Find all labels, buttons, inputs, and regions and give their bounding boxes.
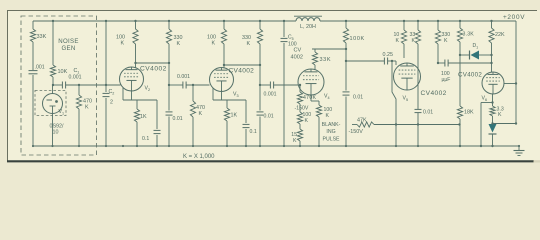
wire ground bottom bus [33,145,519,147]
wire 100K plate column V2 [136,21,170,68]
wire +200V right drop [515,21,517,124]
node 330K top (V6) [437,20,439,22]
svg-text:47K: 47K [357,118,367,124]
node D1 left [459,54,461,56]
label 47K [357,118,367,124]
node bottom bus x=106 [105,145,107,147]
capacitor .001 (noise gen) [29,71,38,74]
svg-text:33K: 33K [37,34,47,40]
capacitor 0.001 coupling V3-V4 [270,82,273,89]
label 0.25 [383,52,394,58]
node 47K junction C [458,123,460,125]
label 3.3K (top) [463,32,475,38]
label 100K (V2) [116,35,125,47]
node grid V6 [490,62,492,64]
node grid V5 [391,60,393,62]
node bottom bus x=33 [32,145,34,147]
node coupling junction V2 [168,84,170,86]
node 470K tap V4 [299,84,301,86]
node D1 right [490,54,492,56]
node 330K top [168,20,170,22]
wire V3 cathode tee [213,88,246,100]
label D1 [473,43,479,49]
resistor 470K grid leak V2 [76,85,81,146]
svg-text:1K: 1K [231,113,238,119]
label 0.01 (V4) [353,95,363,101]
svg-text:3.3K: 3.3K [463,32,475,38]
label 18K [464,110,474,116]
label L1 20H [300,24,316,30]
label NOISE GEN [58,38,78,52]
capacitor 0.25 coupling [384,58,387,65]
label .001 [35,65,45,71]
capacitor 0.01 decoupling V3 [257,112,264,115]
node bottom bus x=284 [283,145,285,147]
triode V2 CV4002 [120,67,144,91]
inductor L1 20H [294,16,322,21]
resistor 470K grid leak V3 [190,85,195,146]
svg-text:K: K [396,38,400,44]
svg-text:K: K [444,38,448,44]
wire 10K column [52,21,54,85]
wire output row [493,123,517,125]
svg-text:-150V: -150V [349,129,364,135]
svg-text:0.25: 0.25 [383,52,394,58]
svg-text:0.01: 0.01 [173,116,183,122]
node 330K junction [437,62,439,64]
wire cathode tee V6 [481,103,493,147]
triode V5 CV4002 [394,63,421,90]
svg-text:BLANK-: BLANK- [322,122,341,128]
node plate V3 [223,64,225,66]
capacitor 0.01 decoupling V2 [166,112,173,115]
wire V4 cathode [311,95,319,101]
wire V1 top lead [52,85,54,94]
svg-text:K = X 1,000: K = X 1,000 [183,154,215,160]
label CV4002 (V5) [421,90,447,97]
label CV4002 (V3) [229,68,255,75]
resistor 18K [457,106,462,119]
label V4 [324,94,330,100]
node bottom bus x=193 [192,145,194,147]
wire plate stub V3 [223,65,225,68]
node bottom bus x=300 [299,145,301,147]
node cathode V6 [491,101,493,103]
capacitor 0.1 bypass V3 [243,100,250,146]
svg-text:2: 2 [110,100,113,106]
node 330K tee V2 [168,62,170,64]
node grid crossing [105,84,107,86]
node 100K top V3 [223,20,225,22]
resistor 3.3K (cathode) [490,106,495,116]
label C2 [109,89,115,106]
resistor 100K plate V4 [343,28,348,43]
node bus cathode tee [480,145,482,147]
resistor 330K (V3) [257,29,262,44]
node 10K top bus [52,20,54,22]
wire plate feed V4 [312,48,346,50]
label 470K (V4) [303,95,317,101]
triode V3 CV4002 [210,68,234,92]
wire grid line stage 1 [53,84,121,86]
label 0.01 (V5) [423,110,433,116]
label 0.01 (V3) [264,114,274,120]
node bottom bus x=123 [122,145,124,147]
label 33K (V5) [410,32,416,44]
svg-text:33K: 33K [320,57,332,63]
node 100K top V4 [345,20,347,22]
capacitor C5 100 [281,38,288,41]
node 330K tee V3 [259,64,261,66]
label CV4002 (V4) [291,48,303,61]
wire 100uuF coupling row [438,63,492,72]
svg-text:K: K [293,138,297,144]
resistor chain 470K/100K/15K to -150V [297,86,302,146]
node 33K top [417,20,419,22]
capacitor 100 uuF coupling [445,60,448,67]
label CV4002 (V6) [458,72,482,79]
resistor 33K [30,29,35,42]
node output [515,122,517,124]
label 1K (V3) [231,113,238,119]
wire 100K plate column V3 [224,21,260,65]
svg-text:CV: CV [294,48,302,54]
label 100K (V3) [207,35,216,47]
node bottom bus x=52.5 [51,145,53,147]
node bottom bus x=137 [136,145,138,147]
node bottom bus x=79 [78,145,80,147]
wire grid line stage 4 [346,61,396,65]
svg-text:CV4002: CV4002 [140,66,167,73]
resistor 10K [401,21,406,58]
svg-text:K: K [212,41,216,47]
capacitor C2 [103,93,110,96]
svg-text:0.01: 0.01 [353,95,363,101]
label 3.3K (cathode) [497,107,504,119]
resistor 330K (V6 grid) [435,21,440,63]
resistor 1K cathode V2 [134,100,139,146]
svg-text:0.001: 0.001 [264,92,277,98]
label BLANKING PULSE [322,122,341,143]
node 10K top [403,20,405,22]
wire V2 cathode tee [123,88,157,100]
node D2 junction [491,122,493,124]
label 0.001 (V2-V3) [177,74,190,80]
wire grid line stage 3 [260,84,299,86]
svg-text:0.01: 0.01 [264,114,274,120]
resistor 10K [50,65,55,77]
svg-text:470K: 470K [303,95,317,101]
node C2 top [105,20,107,22]
node bottom bus x=418 [417,145,419,147]
svg-text:1K: 1K [140,114,147,120]
label 330K (V3) [242,35,251,47]
capacitor C1 0.001 [62,82,65,89]
wire V6 anode [504,83,516,85]
svg-text:22K: 22K [495,32,505,38]
diode D1 [470,51,480,60]
label 33K (V4) [320,57,332,63]
label 470K [83,99,92,111]
svg-text:4002: 4002 [291,55,303,61]
ground [514,146,525,156]
svg-text:10K: 10K [58,69,68,75]
label C1 [74,68,80,74]
wire grid line stage 2 [169,84,210,86]
svg-text:K: K [85,105,89,111]
svg-text:.001: .001 [35,65,45,71]
node bottom bus x=246 [245,145,247,147]
diode D2 [489,124,497,134]
wire 100K plate column V4 [345,21,347,146]
label 100K (divider) [303,112,312,124]
node plate feed [345,48,347,50]
wire V1 cathode to bus [52,114,54,147]
svg-text:L, 20H: L, 20H [300,24,316,30]
node bottom bus x=396 [395,145,397,147]
svg-text:0.1: 0.1 [250,129,257,135]
svg-text:0.01: 0.01 [423,110,433,116]
label -150V (47K) [349,129,364,135]
wire 330K column V2 [168,21,170,146]
label C5 [288,35,297,48]
label 0.1 (V3) [250,129,257,135]
svg-text:K: K [177,41,181,47]
svg-text:0.001: 0.001 [177,74,190,80]
label 470K (V3) [196,105,205,117]
svg-text:CV4002: CV4002 [458,72,482,79]
label +200V [503,14,525,21]
node bus D2 [491,145,493,147]
label CV4002 (V2) [140,66,167,73]
label 100K (V4) [350,36,365,42]
node bottom bus x=157 [156,145,158,147]
wire +200V top supply bus [33,20,516,22]
resistor 100K blanking [316,101,321,146]
noise tube V1 [43,94,63,114]
label 0.001 (C1) [69,75,82,81]
svg-text:K: K [326,113,330,119]
svg-text:ING: ING [326,129,335,135]
label K = X 1,000 [183,154,215,160]
wire C2 column [105,21,107,146]
resistor 47K horizontal [352,122,460,127]
svg-text:CV4002: CV4002 [229,68,255,75]
svg-text:+200V: +200V [503,14,525,21]
wire 330K column V3 [259,21,261,146]
resistor 1K cathode V3 [224,100,229,146]
label 100K (blanking) [324,107,333,119]
label 330K (V2) [174,35,183,47]
node bottom bus x=319 [318,145,320,147]
svg-text:K: K [498,112,502,118]
label 330K (V6) [442,32,451,44]
node bus 18K [459,145,461,147]
svg-text:GEN: GEN [61,45,75,52]
label 0S92/10 [49,124,64,136]
svg-text:K: K [247,41,251,47]
node bottom bus x=519 [518,145,520,147]
label V3 [233,92,239,98]
label 100 uuF [441,71,450,83]
border frame [7,10,540,163]
label 22K [495,32,505,38]
label 33K [37,34,47,40]
capacitor 0.1 bypass V2 [154,100,161,146]
node 22K top [490,20,492,22]
capacitor 0.001 coupling V2-V3 [183,82,186,89]
resistor 22K [489,21,494,63]
triode V4 CV4002 [298,69,324,95]
label 10K [58,69,68,75]
svg-text:CV4002: CV4002 [421,90,447,97]
label 15K [291,132,297,144]
node anode V1 [52,84,54,86]
resistor 3.3K (top) [457,21,462,146]
resistor 33K plate V4 [312,49,317,70]
label 0.1 (V2) [142,136,149,142]
label V1 [59,109,65,115]
svg-text:K: K [121,41,125,47]
resistor 100K plate V2 [133,29,138,44]
node bottom bus x=346 [345,145,347,147]
node 47K junction A [395,123,397,125]
svg-text:0.001: 0.001 [69,75,82,81]
node 470K tap [78,84,80,86]
label V2 [145,86,151,92]
node bottom bus x=169 [168,145,170,147]
svg-text:0.1: 0.1 [142,136,149,142]
label -150V (V4) [295,106,309,112]
svg-text:K: K [305,118,309,124]
node bottom bus x=260 [259,145,261,147]
label 1K (V2) [140,114,147,120]
svg-text:µµF: µµF [442,77,451,83]
label V6 [482,96,488,102]
wire grid leak V5 to -150V row [392,61,396,146]
noise generator enclosure (dashed) [21,16,97,155]
node 3.3K top [459,20,461,22]
triode V6 CV4002 [482,72,504,94]
node plate V2 [134,62,136,64]
node anode V6 [515,82,517,84]
label 10K (V5) [394,32,400,44]
wire noise-gen left column [32,21,34,146]
svg-text:-150V: -150V [295,106,309,112]
svg-text:K: K [199,111,203,117]
node 47K junction B [417,123,419,125]
svg-text:18K: 18K [464,110,474,116]
capacitor 0.01 (V5) [415,109,422,112]
svg-text:PULSE: PULSE [322,137,340,143]
node coupling junction V3 [259,84,261,86]
tube V1 shield (dashed) [35,91,66,116]
resistor 100K plate V3 [221,29,226,44]
node bottom bus x=227 [226,145,228,147]
label 0.01 (V2) [173,116,183,122]
capacitor 0.01 decoupling V4 [343,92,350,95]
label 0.001 (V3-V4) [264,92,277,98]
resistor 33K (V5) [415,21,420,146]
resistor 330K (V2) [166,29,171,44]
wire V6 cathode column [492,94,494,146]
node 470K tap V3 [192,84,194,86]
node 330K top V3 [259,20,261,22]
node C5 top [283,20,285,22]
node coupling tap V4 [345,60,347,62]
node 100K top [134,20,136,22]
wire D1 row [460,54,492,56]
wire C5 column [283,21,285,146]
label V5 [403,96,409,102]
svg-text:10: 10 [53,130,59,136]
svg-text:K: K [412,38,416,44]
svg-text:100K: 100K [350,36,365,42]
